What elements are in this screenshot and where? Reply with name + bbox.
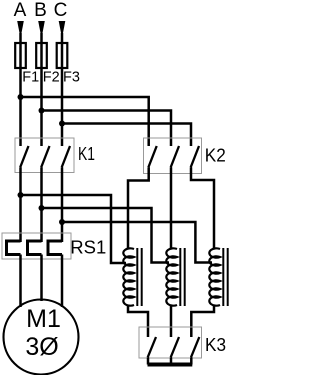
contactor K3 box [139,327,202,358]
star point bar [148,363,193,367]
svg-text:M1: M1 [26,305,61,333]
motor M1 circle [4,300,79,375]
svg-text:K3: K3 [205,334,226,355]
wire K3b to star bar [170,357,173,364]
svg-text:F3: F3 [63,70,80,86]
junction node A lower [18,192,24,198]
wire K2c to transformer T3 top [191,167,214,248]
svg-text:F1: F1 [22,70,39,86]
contact K1b slash [41,146,49,167]
wire B to K2 contact 2 [42,111,172,147]
wire T2 bottom to K3 contact 2 [170,306,173,337]
fuse F3 [57,43,68,68]
heater element RS1b [28,241,42,255]
junction node A upper [18,94,24,100]
svg-text:F2: F2 [43,70,60,86]
wire phase B top [40,33,43,146]
svg-text:A: A [14,0,27,21]
wire K1a to motor line A [19,167,22,242]
wire tap A to transformer T1 [21,195,127,263]
overload relay RS1 box [2,233,71,259]
svg-text:B: B [34,0,47,21]
wire C to K2 contact 3 [62,124,191,147]
wire A to K2 contact 1 [21,97,149,146]
terminal A arrow [17,21,24,34]
wire K1b to motor line B [40,167,43,242]
transformer T2 coil [166,248,177,305]
wire K2b to transformer T2 top [170,167,173,248]
transformer T1 core [137,248,141,306]
contact K3b slash [171,337,179,357]
junction node C upper [59,121,65,127]
svg-text:K2: K2 [205,145,226,166]
transformer T3 coil [209,248,220,305]
wire tap B to transformer T2 [42,208,170,263]
svg-text:K1: K1 [78,143,95,164]
wire K1c to motor line C [61,167,64,242]
contact K2c slash [191,146,199,167]
transformer T1 coil [123,248,134,305]
fuse F1 [15,43,26,68]
fuse F2 [36,43,47,68]
svg-text:RS1: RS1 [70,237,106,258]
junction node C lower [59,219,65,225]
wire K3a to star bar [147,357,150,364]
contact K2a slash [148,146,156,167]
contactor K1 box [15,138,74,173]
terminal C arrow [59,21,66,34]
wire RS1a to motor [19,255,22,308]
heater element RS1a [7,241,21,255]
contact K3a slash [148,337,156,357]
wire T1 bottom to K3 contact 1 [128,306,148,337]
contact K1c slash [62,146,70,167]
junction node B lower [39,205,45,211]
transformer T2 core [180,248,184,306]
contactor K2 box [144,138,202,174]
contact K1a slash [20,146,28,167]
wire T3 bottom to K3 contact 3 [191,306,214,337]
heater element RS1c [48,241,62,255]
junction node B upper [39,108,45,114]
wire RS1b to motor [40,255,43,302]
wire tap C to transformer T3 [62,222,212,263]
terminal B arrow [38,21,45,34]
svg-text:3Ø: 3Ø [25,333,58,361]
contact K3c slash [191,337,199,357]
wire phase A top [19,33,22,146]
transformer T3 core [223,248,227,306]
contact K2b slash [171,146,179,167]
svg-text:C: C [54,0,68,21]
wire K3c to star bar [190,357,193,364]
wire RS1c to motor [61,255,64,308]
wire phase C top [61,33,64,146]
wire K2a to transformer T1 top [128,167,149,248]
